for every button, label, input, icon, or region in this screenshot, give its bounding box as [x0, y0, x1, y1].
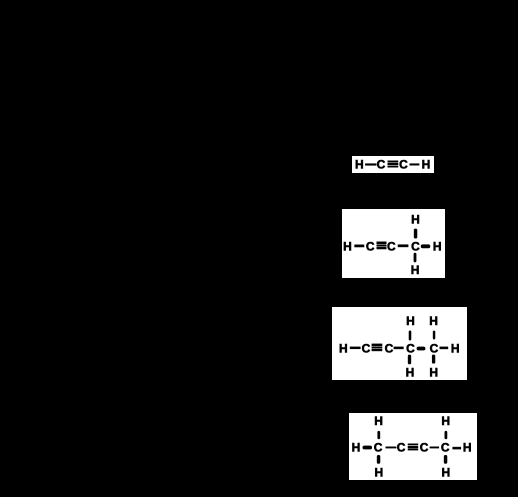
svg-text:C: C [420, 440, 429, 454]
svg-text:C: C [385, 341, 394, 355]
svg-text:H: H [374, 465, 383, 479]
svg-text:C: C [374, 440, 383, 454]
svg-text:C: C [397, 440, 406, 454]
svg-text:H: H [406, 314, 415, 328]
svg-text:C: C [366, 240, 375, 254]
svg-text:H: H [339, 341, 348, 355]
svg-text:H: H [422, 158, 431, 172]
svg-text:C: C [377, 158, 386, 172]
svg-text:C: C [411, 240, 420, 254]
svg-text:H: H [429, 365, 438, 379]
svg-text:H: H [441, 414, 450, 428]
svg-text:C: C [430, 341, 439, 355]
svg-text:H: H [406, 365, 415, 379]
svg-text:H: H [355, 158, 364, 172]
svg-text:H: H [374, 414, 383, 428]
svg-text:C: C [387, 240, 396, 254]
svg-text:H: H [352, 440, 361, 454]
svg-text:H: H [451, 341, 460, 355]
svg-text:C: C [399, 158, 408, 172]
svg-text:H: H [411, 263, 420, 277]
svg-text:H: H [411, 212, 420, 226]
svg-text:H: H [463, 440, 472, 454]
svg-text:H: H [343, 240, 352, 254]
svg-text:C: C [406, 341, 415, 355]
svg-text:H: H [433, 240, 442, 254]
svg-text:H: H [441, 465, 450, 479]
svg-text:H: H [429, 314, 438, 328]
svg-text:C: C [441, 440, 450, 454]
svg-text:C: C [362, 341, 371, 355]
